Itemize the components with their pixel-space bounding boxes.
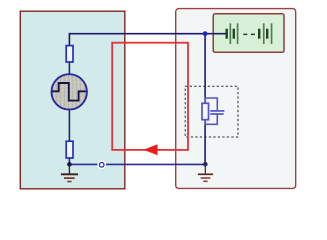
battery pack box B1 xyxy=(213,14,284,53)
battery cell plate (thick short) xyxy=(233,29,235,39)
battery continuation dash xyxy=(251,34,255,36)
capacitor C1 plate (top) xyxy=(210,110,224,112)
resistor R2 xyxy=(66,141,73,158)
battery cell plate (thick short) xyxy=(258,29,260,39)
wire: top horizontal from generator to battery xyxy=(69,34,226,46)
ground: generator side xyxy=(61,164,78,181)
wire: generator internal vertical (R1 to source to R2) xyxy=(68,62,70,141)
junction dot: top node to battery xyxy=(203,31,208,36)
ground: oscilloscope side xyxy=(198,164,213,181)
enclosure box: oscilloscope (light) xyxy=(176,9,296,189)
pulse source V1 xyxy=(51,74,86,109)
junction dot: oscilloscope ground node xyxy=(203,162,208,167)
node: open circle on return wire xyxy=(97,160,106,169)
battery cell plate (tall thin) xyxy=(263,23,265,44)
battery cell plate (tall thin) xyxy=(237,23,239,44)
resistor R3 (scope input resistance) xyxy=(202,103,209,119)
battery cell plate (tall thin) xyxy=(271,23,273,44)
junction dot: generator ground node xyxy=(67,162,72,167)
resistor R1 xyxy=(66,46,73,62)
wire: right vertical bus from top junction down to ground junction xyxy=(204,34,206,165)
wire: R2 bottom to ground junction xyxy=(68,158,70,165)
dashed box: scope input impedance xyxy=(185,86,238,137)
battery cell plate (thick short) xyxy=(226,29,228,39)
wire: parallel RC bottom bracket xyxy=(205,115,217,125)
red current-direction arrow xyxy=(143,144,157,155)
battery cell plate (tall thin) xyxy=(230,23,232,44)
battery cell plate (thick short) xyxy=(266,29,268,39)
red highlight loop xyxy=(112,43,188,150)
capacitor C1 plate (bottom) xyxy=(210,113,223,115)
wire: bottom horizontal return xyxy=(69,163,205,165)
wire: parallel RC top bracket xyxy=(205,98,217,110)
battery continuation dash xyxy=(243,34,247,36)
enclosure box: signal generator (cyan) xyxy=(20,11,125,189)
